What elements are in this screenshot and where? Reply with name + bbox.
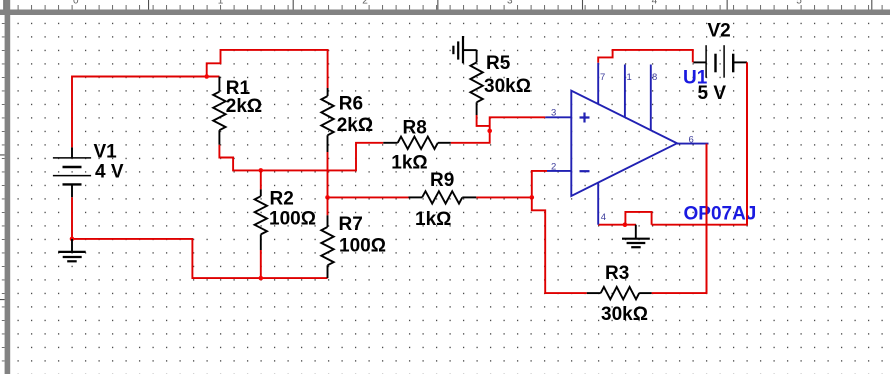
resistor R2 top lead (260, 189, 262, 196)
top ruler minor ticks (18, 5, 882, 10)
svg-text:30kΩ: 30kΩ (601, 304, 648, 325)
node junction pin4/ground/V2 (623, 222, 628, 227)
resistor R7 body (321, 227, 333, 265)
svg-text:1: 1 (218, 0, 224, 6)
resistor R9 body (422, 191, 462, 203)
svg-text:2: 2 (362, 0, 368, 6)
resistor R7 bottom lead (327, 265, 329, 278)
op-amp plus marker (580, 113, 590, 123)
wire R6 bottom to R9 left (328, 152, 409, 197)
wire V1- ground bus (72, 197, 328, 278)
battery V2 left lead (693, 61, 706, 63)
wire feedback to R3 left (532, 197, 587, 293)
battery V1 plate short (63, 166, 82, 168)
ground R5 bar long (462, 36, 464, 63)
svg-text:3: 3 (551, 108, 556, 119)
resistor R3 left lead (587, 292, 601, 294)
svg-text:R8: R8 (403, 118, 427, 139)
left ruler minor ticks (2, 23, 5, 361)
battery V1 plate long bottom (53, 175, 91, 177)
resistor R2 body (255, 196, 267, 234)
op-amp pin 2 lead (547, 170, 571, 172)
op-amp pin 3 lead (545, 116, 571, 118)
ground op-amp bar 1 (622, 238, 650, 240)
wire bump over ground stem (625, 212, 651, 225)
svg-text:4: 4 (601, 212, 606, 223)
wire R5 bottom to node (477, 115, 490, 126)
battery V1 bottom lead (71, 184, 73, 197)
node junction V1/R1/R6 (204, 74, 209, 79)
node junction R1/R2/R8 (259, 168, 264, 173)
resistor R6 body (321, 96, 333, 135)
node junction R2/ground bus (259, 276, 264, 281)
resistor R8 body (398, 137, 438, 149)
svg-text:2: 2 (551, 162, 556, 173)
resistor R7 top lead (327, 215, 329, 227)
wire to R2 top (260, 170, 262, 189)
wire R3 right to op-amp output (652, 144, 707, 294)
resistor R5 body (470, 62, 482, 102)
resistor R1 body (213, 92, 225, 131)
svg-text:3: 3 (507, 0, 513, 6)
battery V2 plate short right (732, 54, 734, 73)
svg-text:5 V: 5 V (698, 83, 727, 104)
svg-text:4: 4 (652, 0, 658, 6)
svg-text:R2: R2 (270, 189, 294, 210)
battery V2 plate long left (705, 45, 707, 77)
op-amp pin 7 stub (597, 63, 599, 105)
resistor R3 body (601, 287, 640, 299)
svg-text:1kΩ: 1kΩ (415, 209, 451, 230)
resistor R9 right lead (462, 196, 476, 198)
svg-text:100Ω: 100Ω (269, 209, 316, 230)
battery V1 plate long top (53, 157, 91, 159)
svg-text:100Ω: 100Ω (339, 236, 386, 257)
op-amp pin 1 stub (624, 65, 626, 118)
wire R1 bottom to R8 left (219, 143, 383, 171)
ground R5 bar mid (457, 41, 459, 59)
ground op-amp stem (635, 225, 637, 239)
top ruler major ticks (4, 0, 872, 10)
left gray bar (5, 0, 11, 374)
ground R5 bar small (452, 46, 454, 55)
wire V2- down to pin 4 net (652, 62, 747, 224)
wire R8 right to op-amp pin 3 (451, 117, 546, 143)
svg-text:0: 0 (73, 0, 79, 6)
battery V2 plate long right (723, 45, 725, 77)
svg-text:4 V: 4 V (95, 162, 124, 183)
op-amp minus marker (580, 170, 590, 172)
resistor R5 top lead (476, 50, 478, 62)
svg-text:V1: V1 (94, 142, 118, 163)
battery V1 top lead (71, 147, 73, 158)
svg-text:6: 6 (689, 135, 694, 146)
resistor R5 bottom lead (476, 102, 478, 115)
svg-text:1: 1 (627, 72, 632, 83)
resistor R9 left lead (409, 196, 423, 198)
wire pin 7 to V2+ (598, 50, 693, 63)
svg-text:V2: V2 (708, 21, 731, 42)
battery V2 right lead (733, 61, 747, 63)
left ruler major ticks (0, 155, 5, 300)
node junction V1-/ground (70, 237, 75, 242)
op-amp pin 4 stub (597, 183, 599, 225)
op-amp pin 6 lead (677, 143, 709, 145)
wire branch to R6 top (207, 50, 328, 88)
svg-text:R9: R9 (430, 170, 454, 191)
svg-text:2kΩ: 2kΩ (226, 96, 262, 117)
svg-text:R5: R5 (486, 53, 511, 74)
resistor R1 top lead (218, 77, 220, 92)
resistor R8 left lead (383, 142, 397, 144)
wire pin 4 to ground (598, 224, 636, 226)
node junction R6/R7/R9 (325, 195, 330, 200)
battery V1 plate short bottom (63, 183, 82, 185)
wire R9 right to op-amp pin 2 (476, 171, 547, 198)
node junction R9/pin2/R3 (530, 195, 535, 200)
ground V1 stem (71, 239, 73, 252)
svg-text:1kΩ: 1kΩ (391, 153, 427, 174)
wire output vertical overpass (706, 144, 708, 294)
resistor R1 bottom lead (218, 130, 220, 145)
ground op-amp bar 3 (631, 246, 641, 248)
op-amp pin 8 stub (650, 65, 652, 131)
ground R5 stem (463, 49, 477, 51)
ground V1 bar 1 (58, 251, 85, 253)
ground V1 bar 3 (67, 260, 77, 262)
wire V1+ to R1 top (72, 77, 219, 148)
svg-text:OP07AJ: OP07AJ (684, 204, 757, 225)
resistor R6 bottom lead (327, 135, 329, 152)
wire R2 bottom to ground bus (260, 250, 262, 278)
top gray bar (0, 10, 890, 16)
svg-text:7: 7 (600, 72, 605, 83)
node junction R5/R8/pin3 (487, 129, 492, 134)
resistor R3 right lead (639, 292, 651, 294)
resistor R2 bottom lead (260, 234, 262, 250)
ground op-amp bar 2 (627, 242, 646, 244)
wire V2 minus vertical overpass (746, 62, 748, 224)
svg-text:R7: R7 (339, 214, 363, 235)
resistor R8 right lead (438, 142, 451, 144)
svg-text:R3: R3 (605, 263, 629, 284)
resistor R6 top lead (327, 88, 329, 96)
svg-text:30kΩ: 30kΩ (484, 76, 531, 97)
svg-text:8: 8 (652, 72, 657, 83)
op-amp U1 triangle (571, 91, 677, 196)
wire to R7 top (327, 197, 329, 215)
battery V2 plate short (714, 54, 716, 73)
svg-text:R6: R6 (339, 94, 363, 115)
svg-text:2kΩ: 2kΩ (337, 115, 373, 136)
svg-text:5: 5 (796, 0, 802, 6)
ground V1 bar 2 (63, 256, 82, 258)
